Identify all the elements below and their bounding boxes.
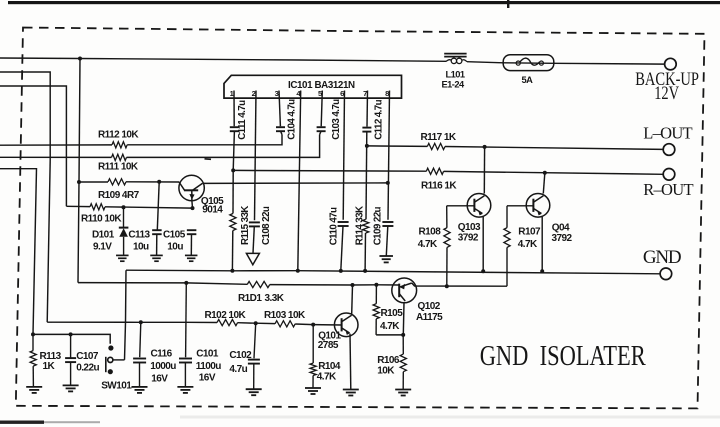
capacitor C112 4.7u [362,127,371,129]
svg-text:R–OUT: R–OUT [643,180,693,199]
svg-text:4.7K: 4.7K [518,239,538,250]
wire pin7 lower [364,233,366,271]
svg-text:9014: 9014 [202,205,223,216]
wire pin7 upper [366,91,369,127]
svg-text:C109 22u: C109 22u [373,206,384,245]
svg-text:R114 33K: R114 33K [354,206,365,245]
ground C109 [379,255,393,257]
ground C107 [63,384,79,386]
switch SW101 [106,345,125,374]
svg-text:C110 47u: C110 47u [328,207,339,245]
wire R115 lower [231,231,233,271]
capacitor C107 0.22u [70,334,72,357]
svg-text:R104: R104 [318,361,341,372]
capacitor C104 4.7u [276,126,285,128]
wire Q103 collector [483,147,485,194]
ground R106 [395,389,411,391]
svg-text:R105: R105 [381,308,404,319]
fuse F101 5A [503,55,554,71]
junction R113 top [31,332,35,336]
transistor Q104 3792 [526,194,550,218]
resistor R117 1K [427,143,445,149]
inductor L101 [444,54,467,64]
capacitor C102 4.7u [254,323,256,358]
wire R112 left [0,144,112,146]
svg-text:C103 4.7u: C103 4.7u [331,99,342,140]
wire Q101 collector [351,285,354,314]
svg-text:R102 10K: R102 10K [205,310,247,321]
svg-text:C105: C105 [163,230,186,241]
svg-text:0.22u: 0.22u [76,363,99,374]
wire R103 to Q101 base [295,324,341,325]
wire GND bus [126,270,660,274]
wire Q103 base [447,205,475,207]
resistor R112 [112,142,127,148]
resistor R104 4.7K [312,325,314,364]
svg-text:Q103: Q103 [458,222,481,233]
svg-text:C101: C101 [196,349,219,360]
wire R102-R103 [238,322,275,325]
wire pin6 upper [343,91,344,220]
junction D101 [122,205,126,209]
wire R112 to C104 [127,135,282,145]
junction R114 bottom [363,269,367,273]
junction C113 tap [157,180,161,184]
junction C110 bottom [339,269,343,273]
resistor R116 1K [426,168,443,174]
svg-text:A1175: A1175 [416,312,443,323]
svg-text:C111 4.7u: C111 4.7u [237,100,248,140]
wire R110 [66,205,90,207]
ground R104 [305,387,321,389]
junction Q104 emitter [540,269,544,273]
wire pin2 line [255,91,257,221]
transistor Q101 2785 [334,313,358,337]
junction C105/emitter [191,206,195,210]
wire supply top [0,57,80,60]
svg-text:R1D1: R1D1 [238,293,262,304]
capacitor C101 1000u 16V [185,283,188,357]
ground C116 [132,386,148,388]
diode D101 9.1V zener [119,207,129,255]
svg-text:3792: 3792 [458,233,479,244]
wire W170 R-OUT bus [233,169,426,172]
wire R117 from pin7 [367,145,427,148]
wire Q104 emitter [541,217,543,271]
svg-text:L101: L101 [446,70,465,80]
svg-text:GND: GND [643,247,681,268]
wire fuse to BACK-UP terminal [554,62,665,65]
svg-text:1K: 1K [43,361,56,372]
terminal R-OUT [663,169,675,181]
svg-text:R108: R108 [419,227,442,238]
svg-text:R115 33K: R115 33K [240,206,251,245]
svg-text:L–OUT: L–OUT [643,124,692,143]
junction R109 node [77,180,81,184]
svg-text:10u: 10u [167,242,183,253]
svg-text:R116 1K: R116 1K [421,181,457,192]
svg-text:C113: C113 [128,230,150,241]
svg-text:12V: 12V [654,82,679,103]
svg-text:R107: R107 [518,227,541,238]
junction Q103 emitter [481,269,485,273]
wire Q102 emitter to W286 [412,283,507,286]
resistor R103 10K [275,321,295,327]
svg-text:4.7K: 4.7K [418,239,438,250]
wire C105 lower [190,234,192,255]
junction collector-pin8 [386,181,390,185]
wire zener node [105,207,193,208]
svg-text:5A: 5A [522,75,534,85]
wire pin3 lead [279,91,280,127]
svg-text:4.7u: 4.7u [229,364,247,375]
svg-text:C102: C102 [229,350,252,361]
svg-text:10u: 10u [133,242,149,253]
ground C101 [177,386,193,388]
wire Q104 collector [543,173,545,193]
wire SW101 riser to GND bus [125,270,127,360]
svg-text:Q102: Q102 [418,301,441,312]
svg-text:1100u: 1100u [196,361,221,372]
wire pin3 to R112 [281,131,282,134]
wire pin4 line [298,91,301,271]
svg-text:R117 1K: R117 1K [421,132,457,143]
wire Q105 emitter [191,201,194,208]
wire R111 to C103 [127,135,320,158]
wire Q105 collector [202,182,387,185]
junction C107 top [69,332,73,336]
resistor R101 3.3K [247,281,270,287]
svg-text:16V: 16V [199,373,216,384]
junction Q103 collector [483,145,487,149]
transistor Q105 9014 [179,175,204,200]
wire B entry [0,72,50,322]
arrow out (C108) [246,253,259,264]
svg-text:C112 4.7u: C112 4.7u [374,99,385,139]
transistor Q102 A1175 [392,278,417,303]
ground C113 [150,254,163,256]
svg-text:D101: D101 [92,230,115,241]
resistor R111 [112,154,127,160]
svg-text:C107: C107 [76,351,99,362]
junction C102 top [254,321,258,325]
junction Q104 collector [543,171,547,175]
svg-text:4.7K: 4.7K [380,321,400,332]
wire R111 left [0,156,112,158]
svg-text:Q04: Q04 [552,223,570,234]
wire supply rail [78,283,247,285]
wire pin1 to W170 [233,131,234,170]
transistor Q103 3792 [467,194,491,218]
svg-text:R110 10K: R110 10K [81,214,122,225]
svg-text:10K: 10K [377,366,395,377]
junction supply/top [78,57,82,61]
svg-text:16V: 16V [151,374,168,385]
resistor R102 10K [217,320,238,326]
wire C113 lower [156,234,158,255]
wire Q102 collector [402,303,405,335]
capacitor C111 4.7u [230,126,239,128]
wire pin5 to R111 [320,131,321,134]
resistor R107 4.7K [506,206,508,228]
IC IC101 BA3121N [224,75,402,98]
resistor R109 [108,179,126,185]
capacitor C108 22u [249,221,260,223]
resistor R114 33K [363,219,369,233]
ground C105 [185,254,198,256]
capacitor C109 22u [382,221,393,223]
ground C102 [246,388,262,390]
svg-text:3.3K: 3.3K [265,293,285,304]
terminal BACK-UP 12V [665,58,677,70]
wire R115 upper [232,170,234,213]
wire C113 branch [157,182,159,230]
svg-text:C116: C116 [151,349,173,360]
ground D101 [116,254,129,256]
junction Q101 collector [351,283,355,287]
svg-text:R112 10K: R112 10K [98,130,139,141]
svg-text:C108 22u: C108 22u [261,206,272,245]
wire C entry [0,86,66,206]
svg-text:9.1V: 9.1V [93,242,112,253]
svg-text:R111 10K: R111 10K [98,162,139,173]
artifact dash [205,158,212,161]
wire top to L101 [80,59,446,62]
resistor R106 10K [402,335,404,354]
junction W170 start [231,168,235,172]
resistor R105 4.7K [375,285,377,304]
wire L101 to fuse [467,62,503,63]
svg-text:C104 4.7u: C104 4.7u [287,99,298,140]
junction Q102 collector node [401,333,405,337]
svg-text:E1-24: E1-24 [442,80,465,90]
wire C108 to arrow [253,226,254,253]
junction C101 top [184,281,188,285]
svg-text:R109 4R7: R109 4R7 [98,190,140,201]
wire Q104 base [507,205,533,207]
terminal GND [660,268,672,280]
wire pin8 lower [386,226,388,256]
resistor R113 1K [32,334,34,350]
wire pin6 lower [341,226,343,271]
wire pin1 lead [233,91,235,127]
wire Q103 emitter [482,217,484,271]
resistor R108 4.7K [446,206,448,228]
ground Q101 [343,389,359,391]
capacitor C103 4.7u [317,126,326,128]
svg-text:GND ISOLATER: GND ISOLATER [480,339,647,371]
wire pin8 upper [388,91,390,220]
wire R102 row [47,321,217,323]
wire R105 bottom link [376,334,403,336]
resistor R110 [90,204,105,210]
svg-text:SW101: SW101 [101,381,132,392]
junction R105 top [374,283,378,287]
ground R113 [26,386,42,388]
wire R109 left [79,181,108,183]
junction R117 tap [365,144,369,148]
svg-text:R106: R106 [377,355,400,366]
svg-text:R103 10K: R103 10K [264,310,306,321]
resistor R115 33K [230,214,236,231]
wire pin7 mid [365,132,368,220]
svg-text:2785: 2785 [318,340,339,351]
capacitor C113 10u [152,229,162,231]
vertical supply riser [78,59,80,283]
wire supply rail right [270,284,399,286]
svg-text:1000u: 1000u [150,361,176,372]
junction pin4 bottom [296,269,300,273]
wire D entry [0,169,37,335]
svg-text:4.7K: 4.7K [317,372,337,383]
junction C116 top [139,320,143,324]
wire Q101 emitter [349,334,352,390]
svg-text:3792: 3792 [552,233,573,244]
capacitor C110 47u [338,221,349,223]
junction R108 bottom [445,284,449,288]
wire R113 row [33,334,110,343]
wire R117 to L-OUT [445,147,663,150]
wire pin5 lead [321,91,322,127]
junction R115 bottom [230,269,234,273]
wire R116 to R-OUT [444,171,664,174]
capacitor C105 10u [187,229,197,231]
terminal L-OUT [663,144,675,156]
junction R104 top [311,323,315,327]
capacitor C116 1000u 16V [140,322,141,357]
wire R109 to Q105 base [126,181,179,183]
